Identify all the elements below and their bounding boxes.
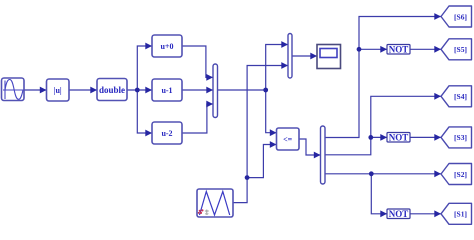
svg-text:[S2]: [S2] <box>454 170 467 179</box>
svg-text:<=: <= <box>283 135 293 144</box>
svg-text:u+0: u+0 <box>160 42 173 51</box>
svg-text:u-1: u-1 <box>161 86 172 95</box>
svg-text:[S4]: [S4] <box>454 92 467 101</box>
svg-text:[S5]: [S5] <box>454 45 467 54</box>
svg-text:[S6]: [S6] <box>454 12 467 21</box>
svg-text:[S1]: [S1] <box>454 210 467 219</box>
svg-text:NOT: NOT <box>389 132 409 142</box>
svg-text:u-2: u-2 <box>161 129 172 138</box>
svg-text:NOT: NOT <box>389 209 409 219</box>
svg-text:NOT: NOT <box>389 45 409 55</box>
svg-text:|u|: |u| <box>54 86 62 95</box>
svg-text:[S3]: [S3] <box>454 133 467 142</box>
svg-text:double: double <box>99 85 125 95</box>
